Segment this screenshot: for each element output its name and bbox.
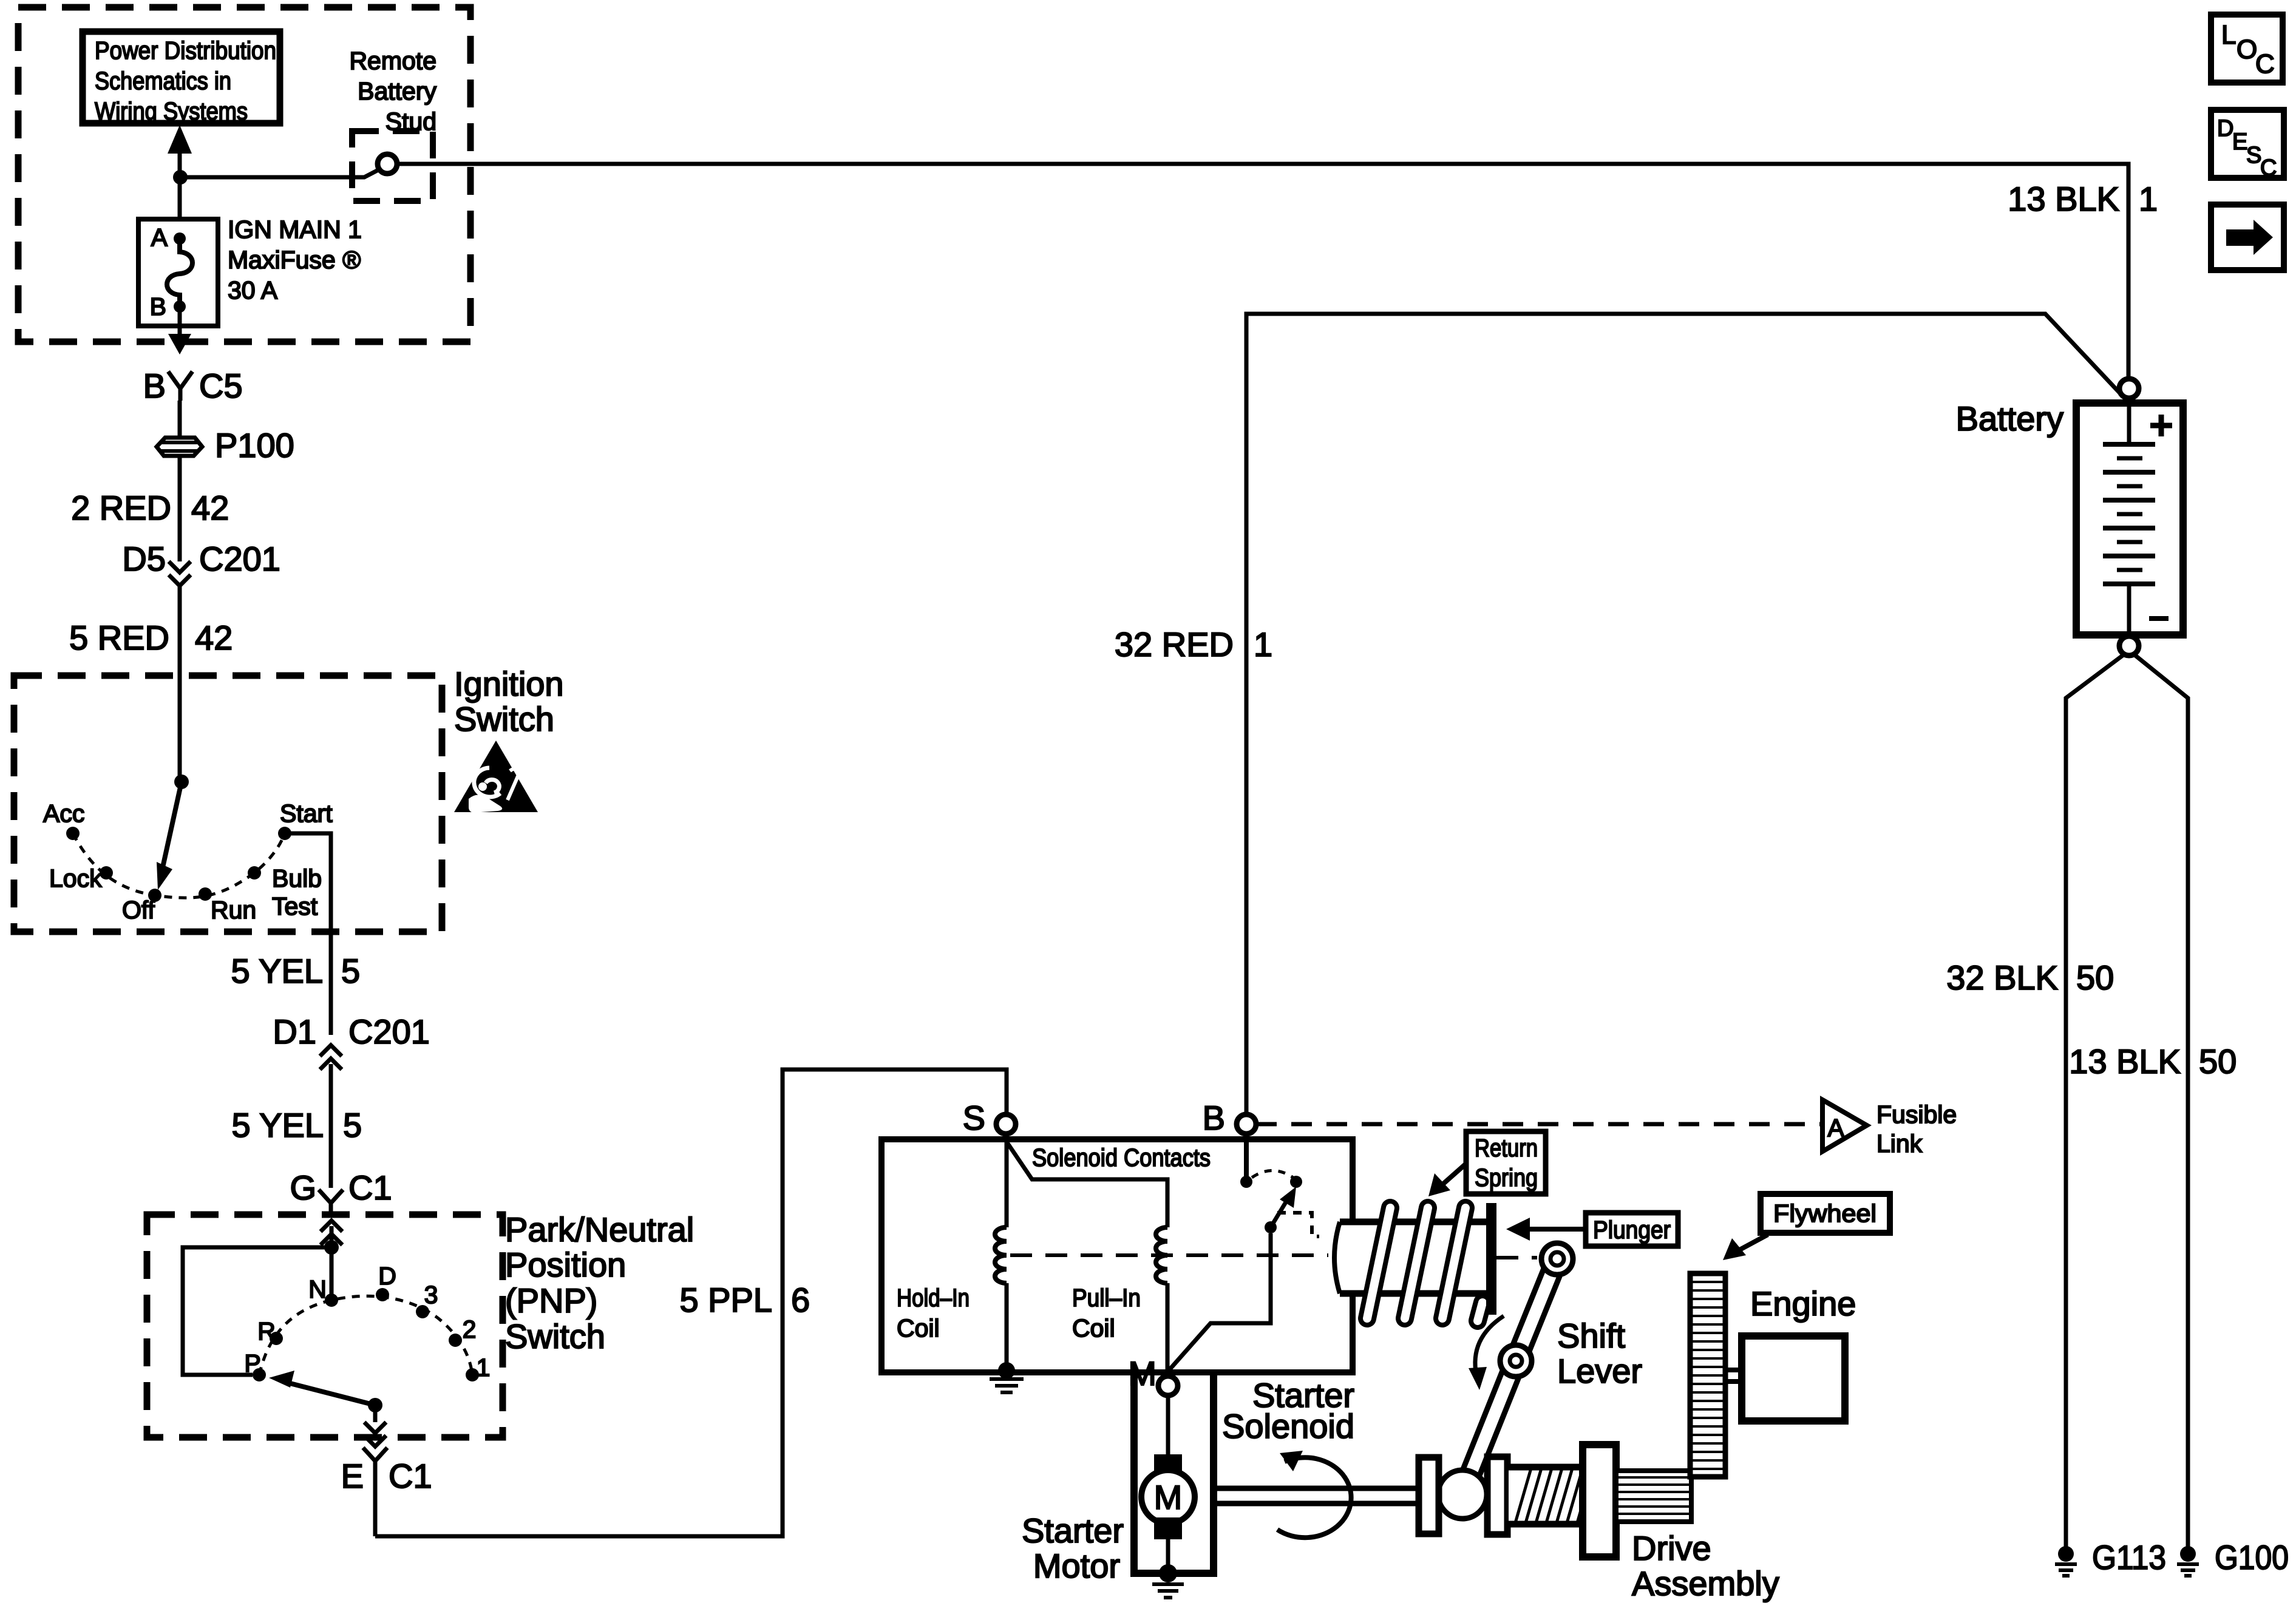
flywheel ring gear: [1690, 1273, 1725, 1477]
svg-text:Switch: Switch: [505, 1317, 605, 1355]
underhood accessory wiring junction block (dashed enclosure): [18, 7, 470, 342]
connector C201 pin D5 (double chevron): [122, 540, 280, 586]
fuse element (S-curve): [167, 239, 192, 307]
svg-text:E: E: [2232, 129, 2247, 155]
ignition switch contact arc (dashed): [73, 833, 285, 898]
svg-text:C5: C5: [199, 367, 243, 405]
svg-text:Flywheel: Flywheel: [1773, 1199, 1877, 1227]
remote battery stud (dashed box): [352, 131, 433, 201]
arrow up into power distribution box: [168, 125, 192, 177]
svg-text:C1: C1: [348, 1168, 392, 1207]
svg-text:5: 5: [343, 1106, 362, 1144]
svg-text:30 A: 30 A: [228, 276, 278, 304]
wire: S to hold-in coil: [1005, 1134, 1009, 1227]
starter solenoid box: [881, 1139, 1353, 1372]
label box: Return Spring with arrow: [1428, 1131, 1546, 1196]
label box: Plunger: [1586, 1213, 1678, 1246]
svg-text:Wiring Systems: Wiring Systems: [95, 97, 248, 125]
wire 5 PPL 6: PNP to solenoid S terminal: [375, 1070, 1007, 1536]
contact 1: [466, 1354, 490, 1381]
svg-text:B: B: [150, 293, 166, 320]
contact Start: [278, 799, 333, 840]
solenoid moving contact with arrow: [1265, 1187, 1296, 1233]
terminal B: [1203, 1099, 1256, 1137]
connector C1 pin G: [290, 1168, 392, 1215]
svg-text:5 PPL: 5 PPL: [679, 1281, 772, 1319]
svg-text:2: 2: [463, 1315, 477, 1343]
solenoid fixed contact (left): [1240, 1176, 1252, 1188]
connector C201 pin D1 (double chevron): [273, 1012, 429, 1126]
svg-text:G100: G100: [2215, 1538, 2289, 1576]
svg-text:C201: C201: [348, 1012, 430, 1051]
label: Starter Solenoid: [1222, 1376, 1354, 1445]
pinion gear: [1616, 1471, 1691, 1522]
wire: fuse pin B down, arrow out of junction block: [168, 307, 191, 354]
battery minus sign: [2149, 616, 2169, 621]
ignition switch wiper node: [174, 775, 189, 789]
svg-text:5 RED: 5 RED: [69, 619, 169, 657]
svg-text:1: 1: [1254, 625, 1272, 663]
svg-text:Remote: Remote: [349, 47, 436, 75]
svg-text:Schematics in: Schematics in: [95, 67, 231, 95]
svg-text:C1: C1: [389, 1457, 432, 1495]
svg-text:Park/Neutral: Park/Neutral: [505, 1210, 694, 1249]
entry arrow into PNP switch (double chevron): [321, 1221, 342, 1247]
label: Solenoid Contacts with leader: [1032, 1144, 1211, 1171]
svg-text:Solenoid: Solenoid: [1222, 1407, 1354, 1445]
starter motor box: [1134, 1372, 1214, 1573]
svg-text:S: S: [963, 1099, 985, 1137]
wire: B terminal into contacts: [1244, 1134, 1249, 1178]
svg-text:G: G: [290, 1168, 316, 1207]
label: 32 RED 1: [1115, 625, 1272, 663]
svg-text:G113: G113: [2092, 1538, 2166, 1576]
contact Run: [199, 887, 256, 924]
svg-text:MaxiFuse ®: MaxiFuse ®: [228, 246, 361, 274]
park/neutral position switch (dashed enclosure): [147, 1215, 503, 1437]
note box: Power Distribution Schematics in Wiring Systems: [83, 32, 280, 125]
label: Park/Neutral Position (PNP) Switch: [505, 1210, 694, 1355]
SRS warning triangle icon: [454, 741, 538, 813]
svg-text:Shift: Shift: [1557, 1317, 1625, 1355]
motor brush (lower): [1154, 1517, 1182, 1539]
label: Drive Assembly: [1632, 1529, 1779, 1602]
svg-text:A: A: [1827, 1114, 1844, 1142]
PNP wiper arrow to P: [269, 1371, 375, 1405]
svg-text:C: C: [2260, 155, 2277, 181]
label: Engine: [1750, 1284, 1856, 1323]
svg-text:42: 42: [191, 489, 229, 527]
svg-text:Engine: Engine: [1750, 1284, 1856, 1323]
remote battery stud terminal circle: [378, 154, 397, 174]
svg-text:Power Distribution: Power Distribution: [95, 36, 276, 64]
ground G100: [2177, 1538, 2289, 1576]
starter motor ground: [1152, 1564, 1184, 1598]
svg-text:32 BLK: 32 BLK: [1946, 958, 2058, 997]
svg-text:1: 1: [2139, 180, 2158, 218]
svg-text:Pull–In: Pull–In: [1072, 1284, 1141, 1312]
wire: feed to N contact: [330, 1247, 334, 1300]
svg-text:Coil: Coil: [1072, 1314, 1115, 1342]
label: Shift Lever: [1557, 1317, 1642, 1390]
svg-text:D: D: [378, 1262, 396, 1290]
label: IGN MAIN 1 MaxiFuse 30 A: [228, 215, 362, 304]
label: 32 BLK 50: [1946, 958, 2114, 997]
svg-text:M: M: [1154, 1478, 1183, 1516]
battery box: [2076, 403, 2183, 635]
plunger stop plate: [1486, 1203, 1496, 1315]
legend icon: LOC: [2211, 15, 2283, 83]
svg-text:Bulb: Bulb: [272, 864, 322, 892]
wire: moving contact to M: [1169, 1233, 1271, 1371]
motor brush (upper): [1154, 1454, 1182, 1476]
svg-text:Battery: Battery: [1956, 399, 2063, 438]
contact N: [308, 1275, 338, 1307]
label: 2 RED 42: [71, 489, 229, 527]
contact D: [376, 1262, 396, 1301]
svg-text:50: 50: [2199, 1042, 2237, 1080]
PNP contact arc (dashed): [259, 1296, 472, 1375]
contact Off: [122, 889, 161, 924]
junction node on feed wire: [173, 170, 188, 185]
svg-text:Battery: Battery: [358, 77, 436, 105]
svg-text:IGN MAIN 1: IGN MAIN 1: [228, 215, 362, 243]
splice P100: [157, 426, 294, 464]
label: Pull-In Coil: [1072, 1284, 1141, 1342]
svg-text:C201: C201: [199, 540, 280, 578]
svg-text:Motor: Motor: [1033, 1547, 1120, 1585]
shaft rotation arrow: [1277, 1451, 1351, 1537]
svg-text:Drive: Drive: [1632, 1529, 1711, 1567]
wire 5 YEL 5 (lower): [231, 1106, 362, 1188]
flywheel to engine coupling: [1725, 1370, 1742, 1381]
battery positive terminal circle: [2119, 379, 2139, 398]
contact Acc: [43, 799, 84, 840]
label: Starter Motor: [1022, 1511, 1124, 1585]
label: Fusible Link: [1877, 1100, 1957, 1158]
svg-text:B: B: [1203, 1099, 1225, 1137]
drive assembly flange (large): [1583, 1445, 1616, 1557]
wire 32 RED: B terminal up and over to battery: [1246, 314, 2122, 1114]
label: Remote Battery Stud: [349, 47, 436, 135]
contact linkage (dashed): [1277, 1213, 1319, 1236]
plunger arrow (from Plunger label): [1506, 1218, 1586, 1241]
svg-text:Start: Start: [280, 799, 333, 827]
svg-text:(PNP): (PNP): [505, 1281, 597, 1320]
svg-text:5: 5: [341, 952, 360, 990]
return spring (coil loops): [1367, 1208, 1483, 1321]
connector C5 pin B (in-line connector symbol): [143, 367, 243, 405]
svg-text:42: 42: [195, 619, 233, 657]
contact P: [244, 1349, 266, 1381]
svg-text:Lever: Lever: [1557, 1352, 1642, 1390]
svg-text:Ignition: Ignition: [454, 665, 564, 703]
contact 3: [416, 1281, 438, 1318]
contact travel arc (dashed): [1252, 1171, 1293, 1178]
svg-text:Hold–In: Hold–In: [897, 1284, 970, 1312]
wire: S to pull-in coil: [1007, 1142, 1167, 1227]
label: Hold-In Coil: [897, 1284, 970, 1342]
svg-text:Link: Link: [1877, 1130, 1923, 1158]
shift lever ball end: [1438, 1470, 1487, 1519]
shift lever motion arrow: [1469, 1316, 1504, 1390]
PNP feed node: [324, 1240, 339, 1255]
helical spline shaft: [1507, 1467, 1624, 1524]
dashed wire: B terminal to fusible link: [1256, 1122, 1821, 1127]
wires: battery negative split to grounds: [2066, 654, 2188, 1548]
label: 5 YEL 5: [231, 952, 360, 990]
label box: Flywheel with arrow: [1723, 1194, 1890, 1260]
wire: feed loop to P contact: [183, 1247, 331, 1375]
drive assembly flange (middle): [1487, 1457, 1507, 1534]
svg-text:Fusible: Fusible: [1877, 1100, 1957, 1128]
fuse pin A: [151, 223, 186, 251]
battery negative terminal circle: [2119, 636, 2139, 656]
svg-text:Assembly: Assembly: [1632, 1564, 1779, 1602]
connector C1 pin E: [341, 1448, 432, 1536]
battery plates: [2103, 403, 2155, 635]
wire: lower brush to case ground: [1166, 1539, 1170, 1573]
ignition switch wiper arrow to Off: [157, 782, 182, 890]
svg-text:Starter: Starter: [1022, 1511, 1124, 1550]
svg-text:Plunger: Plunger: [1593, 1216, 1671, 1244]
svg-text:N: N: [308, 1275, 327, 1303]
motor shaft: [1214, 1488, 1419, 1503]
shift lever fulcrum (middle): [1500, 1345, 1532, 1377]
svg-text:D1: D1: [273, 1012, 316, 1051]
label: Battery: [1956, 399, 2063, 438]
svg-text:O: O: [2237, 35, 2257, 64]
wire: M terminal to brush: [1166, 1395, 1170, 1454]
svg-text:13 BLK: 13 BLK: [2008, 180, 2119, 218]
starter motor armature M: [1141, 1470, 1195, 1524]
wire 5 RED 42: [178, 586, 182, 782]
svg-text:Solenoid Contacts: Solenoid Contacts: [1032, 1144, 1211, 1171]
svg-text:D: D: [2217, 116, 2233, 141]
ground G113: [2055, 1538, 2166, 1576]
wire: pull-in coil to M terminal: [1166, 1283, 1170, 1373]
wire: hold-in coil to ground: [1005, 1283, 1009, 1369]
svg-text:C: C: [2255, 49, 2275, 79]
contact R: [257, 1317, 283, 1345]
plunger axis (dashed): [1010, 1255, 1537, 1258]
wire 2 RED 42: [178, 456, 182, 549]
svg-text:Position: Position: [505, 1246, 626, 1284]
shift lever pivot (top): [1541, 1243, 1573, 1275]
svg-text:Test: Test: [272, 892, 318, 920]
svg-text:32 RED: 32 RED: [1115, 625, 1234, 663]
wire: C5 to splice P100: [178, 401, 182, 436]
hold-in coil: [995, 1227, 1007, 1283]
svg-text:Coil: Coil: [897, 1314, 940, 1342]
svg-text:E: E: [341, 1457, 364, 1495]
ignition switch (dashed enclosure): [14, 676, 442, 932]
wire: Start contact to 5 YEL 5: [285, 833, 331, 1035]
svg-text:13 BLK: 13 BLK: [2069, 1042, 2181, 1080]
svg-text:D5: D5: [122, 540, 166, 578]
terminal S: [963, 1099, 1016, 1137]
svg-text:5 YEL: 5 YEL: [231, 952, 323, 990]
pull-in coil: [1156, 1227, 1167, 1283]
svg-text:2 RED: 2 RED: [71, 489, 171, 527]
label: 5 RED 42: [69, 619, 233, 657]
plunger body: [1334, 1219, 1486, 1297]
svg-text:Lock: Lock: [49, 864, 102, 892]
contact 2: [449, 1315, 476, 1347]
svg-text:Return: Return: [1475, 1134, 1538, 1162]
label: Ignition Switch: [454, 665, 564, 738]
contact Bulb Test: [248, 864, 322, 920]
shift lever arm: [1462, 1259, 1557, 1494]
engine block: [1742, 1336, 1845, 1421]
legend icon: next-page arrow: [2211, 205, 2284, 270]
drive assembly flange (left): [1419, 1457, 1439, 1534]
wire: stud to battery positive (top feed, 13 BLK 1): [397, 164, 2128, 376]
label: 13 BLK 1: [2008, 180, 2158, 218]
legend icon: DESC: [2211, 110, 2284, 181]
solenoid fixed contact (right): [1290, 1176, 1302, 1188]
svg-text:L: L: [2221, 20, 2236, 50]
svg-text:Run: Run: [211, 896, 256, 924]
svg-text:B: B: [143, 367, 166, 405]
wire: junction dot to stud: [180, 169, 379, 177]
fuse F1: IGN MAIN 1 MaxiFuse 30 A (box): [138, 219, 218, 326]
svg-text:6: 6: [791, 1281, 810, 1319]
label: 5 PPL 6: [679, 1281, 810, 1319]
battery plus sign: [2150, 415, 2172, 436]
svg-text:3: 3: [424, 1281, 438, 1309]
svg-text:Acc: Acc: [43, 799, 84, 827]
label: 13 BLK 50: [2069, 1042, 2237, 1080]
terminal M: [1128, 1354, 1178, 1395]
svg-text:Switch: Switch: [454, 700, 554, 738]
wire: junction to fuse pin A: [178, 177, 182, 238]
exit arrow from PNP switch (double chevron): [364, 1405, 386, 1446]
svg-text:S: S: [2246, 143, 2261, 168]
fusible link symbol A: [1822, 1100, 1867, 1151]
contact Lock: [49, 864, 113, 892]
svg-text:50: 50: [2076, 958, 2114, 997]
svg-text:Spring: Spring: [1475, 1164, 1538, 1192]
svg-text:P100: P100: [215, 426, 294, 464]
svg-text:A: A: [151, 223, 168, 251]
solenoid ground: [990, 1362, 1024, 1392]
fuse pin B: [150, 293, 186, 320]
PNP wiper node: [368, 1398, 382, 1412]
svg-text:5 YEL: 5 YEL: [231, 1106, 324, 1144]
